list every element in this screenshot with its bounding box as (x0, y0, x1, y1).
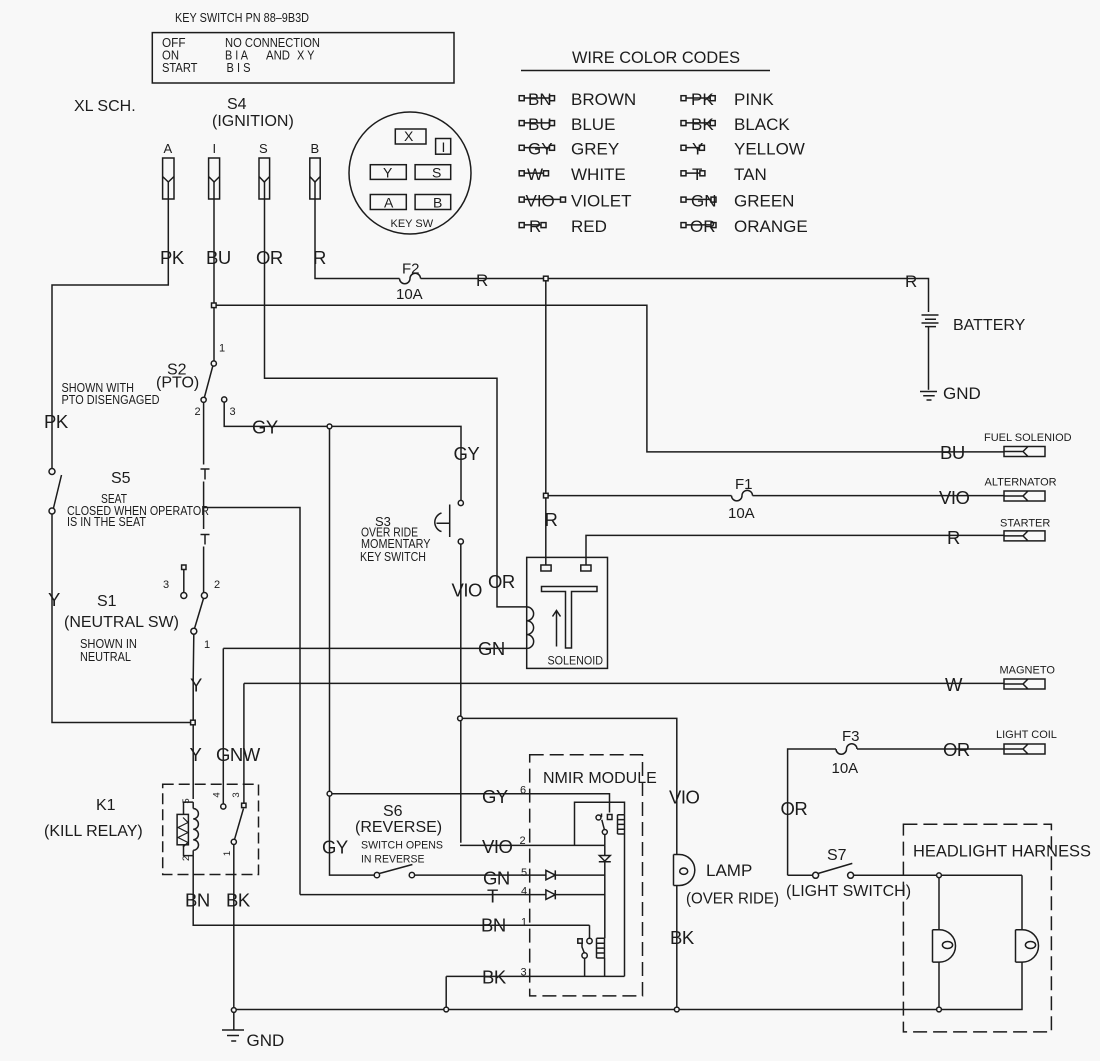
svg-text:4: 4 (521, 886, 527, 898)
svg-text:BLUE: BLUE (571, 115, 615, 134)
svg-text:GY: GY (252, 417, 278, 438)
svg-text:Y: Y (692, 140, 703, 159)
svg-text:RED: RED (571, 217, 607, 236)
svg-text:(REVERSE): (REVERSE) (355, 819, 442, 836)
svg-text:R: R (947, 527, 960, 548)
svg-text:Y: Y (190, 675, 202, 696)
svg-text:SOLENOID: SOLENOID (548, 654, 604, 668)
svg-text:WIRE COLOR CODES: WIRE COLOR CODES (572, 49, 740, 67)
svg-text:3: 3 (521, 967, 527, 979)
svg-text:S1: S1 (97, 593, 117, 610)
svg-text:YELLOW: YELLOW (734, 140, 805, 159)
svg-text:OR: OR (690, 217, 716, 236)
svg-text:3: 3 (163, 579, 169, 591)
svg-text:S5: S5 (111, 470, 131, 487)
svg-text:VIO: VIO (452, 580, 482, 601)
svg-text:VIO: VIO (669, 787, 699, 808)
svg-text:4: 4 (212, 792, 223, 797)
svg-text:R: R (529, 217, 541, 236)
svg-text:2: 2 (181, 856, 192, 861)
svg-text:(LIGHT SWITCH): (LIGHT SWITCH) (786, 883, 911, 900)
svg-text:STARTER: STARTER (1000, 518, 1050, 530)
svg-text:GND: GND (247, 1031, 285, 1050)
svg-text:MAGNETO: MAGNETO (1000, 665, 1056, 677)
svg-text:BROWN: BROWN (571, 90, 636, 109)
svg-text:OR: OR (256, 247, 283, 268)
svg-text:A: A (164, 141, 173, 156)
svg-text:OR: OR (943, 739, 970, 760)
svg-text:T: T (487, 886, 498, 907)
svg-text:(PTO): (PTO) (156, 375, 199, 392)
svg-text:(NEUTRAL SW): (NEUTRAL SW) (64, 614, 179, 631)
svg-text:PK: PK (160, 247, 185, 268)
svg-text:VIO: VIO (526, 191, 555, 210)
svg-text:I: I (213, 141, 217, 156)
svg-text:K1: K1 (96, 797, 116, 814)
svg-text:2: 2 (520, 835, 526, 847)
svg-text:GND: GND (943, 384, 981, 403)
svg-text:BK: BK (691, 115, 714, 134)
svg-text:10A: 10A (396, 286, 423, 303)
svg-text:1: 1 (521, 917, 527, 929)
svg-text:S: S (432, 165, 441, 181)
svg-text:BN: BN (528, 90, 552, 109)
svg-text:GREY: GREY (571, 140, 619, 159)
svg-text:BLACK: BLACK (734, 115, 790, 134)
svg-text:W: W (945, 674, 963, 695)
svg-text:OR: OR (488, 571, 515, 592)
svg-text:AND: AND (266, 48, 290, 63)
svg-text:R: R (313, 247, 326, 268)
svg-text:X Y: X Y (297, 48, 315, 63)
svg-text:GN: GN (478, 638, 505, 659)
svg-text:BU: BU (940, 442, 965, 463)
svg-text:W: W (527, 165, 543, 184)
svg-text:B: B (311, 141, 320, 156)
svg-text:OR: OR (781, 798, 808, 819)
svg-text:VIO: VIO (939, 487, 969, 508)
svg-text:SWITCH OPENS: SWITCH OPENS (361, 840, 443, 852)
svg-text:TAN: TAN (734, 165, 767, 184)
svg-text:(KILL RELAY): (KILL RELAY) (44, 823, 143, 840)
svg-text:R: R (545, 509, 558, 530)
svg-text:S6: S6 (383, 803, 403, 820)
svg-text:2: 2 (214, 579, 220, 591)
svg-text:GREEN: GREEN (734, 191, 794, 210)
svg-text:GY: GY (322, 837, 348, 858)
svg-text:START: START (162, 60, 198, 75)
svg-text:6: 6 (520, 785, 526, 797)
svg-text:I: I (442, 139, 446, 155)
svg-text:3: 3 (231, 792, 242, 797)
svg-text:BU: BU (528, 115, 552, 134)
svg-text:R: R (476, 271, 488, 290)
svg-text:B I S: B I S (227, 60, 251, 75)
svg-text:GY: GY (454, 443, 480, 464)
svg-text:WHITE: WHITE (571, 165, 626, 184)
svg-text:VIOLET: VIOLET (571, 191, 631, 210)
svg-text:A: A (384, 195, 394, 211)
svg-text:10A: 10A (728, 505, 755, 522)
svg-text:5: 5 (521, 867, 527, 879)
svg-text:(OVER RIDE): (OVER RIDE) (686, 891, 779, 908)
svg-text:XL SCH.: XL SCH. (74, 98, 136, 115)
svg-text:BN: BN (185, 890, 210, 911)
svg-text:VIO: VIO (482, 836, 512, 857)
svg-text:BK: BK (226, 890, 251, 911)
svg-text:PK: PK (691, 90, 714, 109)
svg-text:10A: 10A (832, 760, 859, 777)
svg-text:KEY SWITCH PN 88–9B3D: KEY SWITCH PN 88–9B3D (175, 10, 309, 25)
svg-text:F3: F3 (842, 728, 860, 745)
svg-text:BU: BU (206, 247, 231, 268)
svg-text:BK: BK (482, 967, 507, 988)
svg-text:B: B (433, 195, 442, 211)
svg-text:NMIR MODULE: NMIR MODULE (543, 770, 657, 787)
svg-text:X: X (404, 128, 414, 144)
svg-text:GY: GY (528, 140, 553, 159)
svg-text:(IGNITION): (IGNITION) (212, 113, 294, 130)
svg-text:KEY SWITCH: KEY SWITCH (360, 549, 426, 564)
svg-text:5: 5 (181, 798, 192, 803)
svg-text:F2: F2 (402, 261, 420, 278)
svg-text:LIGHT COIL: LIGHT COIL (996, 729, 1057, 741)
svg-text:PTO DISENGAGED: PTO DISENGAGED (62, 392, 160, 407)
svg-text:S4: S4 (227, 96, 247, 113)
svg-text:S: S (259, 141, 268, 156)
svg-text:Y: Y (190, 744, 202, 765)
svg-text:3: 3 (230, 406, 236, 418)
svg-text:2: 2 (195, 406, 201, 418)
svg-text:IN REVERSE: IN REVERSE (361, 854, 425, 866)
svg-text:S7: S7 (827, 847, 847, 864)
svg-text:ORANGE: ORANGE (734, 217, 808, 236)
svg-text:R: R (905, 272, 917, 291)
svg-text:1: 1 (204, 639, 210, 651)
svg-text:LAMP: LAMP (706, 861, 752, 880)
svg-text:GY: GY (482, 786, 508, 807)
svg-text:IS IN THE SEAT: IS IN THE SEAT (67, 514, 146, 529)
svg-text:BK: BK (670, 927, 695, 948)
svg-text:1: 1 (219, 343, 225, 355)
svg-text:HEADLIGHT HARNESS: HEADLIGHT HARNESS (913, 842, 1091, 861)
svg-text:T: T (692, 165, 702, 184)
svg-text:BN: BN (481, 915, 506, 936)
svg-text:F1: F1 (735, 476, 753, 493)
svg-text:PK: PK (44, 411, 69, 432)
svg-text:1: 1 (222, 851, 233, 856)
svg-text:GNW: GNW (216, 744, 261, 765)
svg-text:FUEL SOLENIOD: FUEL SOLENIOD (984, 432, 1072, 444)
svg-text:BATTERY: BATTERY (953, 317, 1026, 334)
svg-text:GN: GN (691, 191, 717, 210)
svg-text:ALTERNATOR: ALTERNATOR (985, 477, 1057, 489)
svg-text:Y: Y (383, 165, 393, 181)
svg-text:NEUTRAL: NEUTRAL (80, 649, 131, 664)
svg-text:Y: Y (48, 589, 60, 610)
svg-text:PINK: PINK (734, 90, 774, 109)
svg-text:KEY SW: KEY SW (391, 218, 434, 230)
